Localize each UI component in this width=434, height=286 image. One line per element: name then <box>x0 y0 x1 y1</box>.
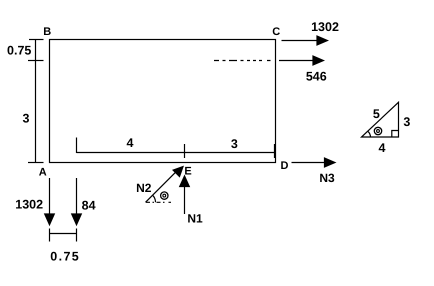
svg-text:A: A <box>39 166 47 178</box>
svg-text:N3: N3 <box>319 171 335 185</box>
svg-text:1302: 1302 <box>311 20 339 34</box>
triangle angle symbol @ <box>374 127 381 134</box>
svg-text:3: 3 <box>403 115 410 129</box>
angle marker @ at N2 tail <box>146 195 172 202</box>
left dimension line <box>28 40 44 163</box>
svg-text:C: C <box>272 26 280 38</box>
svg-text:4: 4 <box>379 141 386 155</box>
force arrow 84 (down) <box>72 178 82 225</box>
svg-text:N1: N1 <box>187 212 203 226</box>
bottom 0.75 dimension line <box>50 229 77 242</box>
force arrow 546 <box>279 56 324 65</box>
svg-text:3: 3 <box>23 111 30 125</box>
dash-dot centerline <box>214 60 271 62</box>
svg-text:5: 5 <box>373 107 380 121</box>
force arrow 1302 at A (down) <box>45 178 55 225</box>
svg-text:0.75: 0.75 <box>50 249 80 263</box>
svg-text:0.75: 0.75 <box>7 44 31 58</box>
force arrow 1302 at C <box>282 36 328 45</box>
svg-text:D: D <box>281 160 289 172</box>
svg-text:E: E <box>184 166 191 178</box>
plate outline ABCD <box>50 40 276 163</box>
svg-text:1302: 1302 <box>15 197 43 211</box>
bottom dimension line (4 and 3) <box>77 138 276 159</box>
force arrow N2 at E (diagonal) <box>146 167 184 203</box>
force arrow N3 at D <box>292 158 336 167</box>
slope triangle 3-4-5 <box>362 102 399 137</box>
svg-text:84: 84 <box>82 198 96 212</box>
force arrow N1 at E (up) <box>180 176 190 214</box>
angle symbol @ at N2 <box>161 192 168 199</box>
svg-text:N2: N2 <box>136 181 152 195</box>
svg-text:3: 3 <box>231 137 238 151</box>
svg-text:B: B <box>43 26 51 38</box>
svg-text:4: 4 <box>127 136 134 150</box>
svg-text:546: 546 <box>306 69 327 83</box>
